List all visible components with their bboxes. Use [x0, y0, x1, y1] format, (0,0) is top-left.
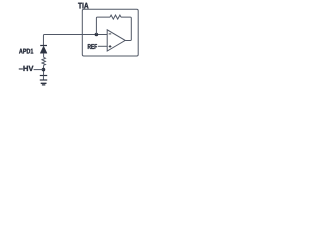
- label -HV: [19, 66, 34, 71]
- op-amp U1 triangle: [107, 30, 125, 51]
- capacitor stem: [42, 76, 44, 80]
- ground: [41, 83, 47, 85]
- wire diode anode to bias resistor: [43, 53, 45, 57]
- node junction dot feedback tap: [95, 33, 99, 37]
- wire feedback right and down to op-amp output: [121, 17, 131, 40]
- wire -HV feed: [34, 69, 44, 71]
- op-amp plus input mark: [109, 45, 112, 48]
- op-amp minus input mark: [109, 33, 112, 35]
- diode APD1 triangle: [40, 46, 47, 53]
- TIA box: [82, 9, 138, 56]
- label APD1: [19, 49, 33, 54]
- capacitor filter plate bottom: [40, 79, 47, 81]
- wire input from APD node to op-amp inverting input: [43, 35, 107, 46]
- wire REF to op-amp non-inverting input: [98, 45, 107, 47]
- label REF: [88, 44, 97, 49]
- capacitor filter plate top: [40, 75, 47, 77]
- diode APD1 cathode bar: [40, 45, 47, 47]
- wire resistor to -HV node: [43, 65, 45, 75]
- resistor bias zigzag: [42, 57, 46, 65]
- wire feedback up and right: [96, 17, 110, 34]
- label TIA: [78, 3, 88, 9]
- resistor RF feedback zigzag: [110, 15, 121, 19]
- node -HV junction dot: [42, 68, 46, 72]
- background: [0, 0, 160, 90]
